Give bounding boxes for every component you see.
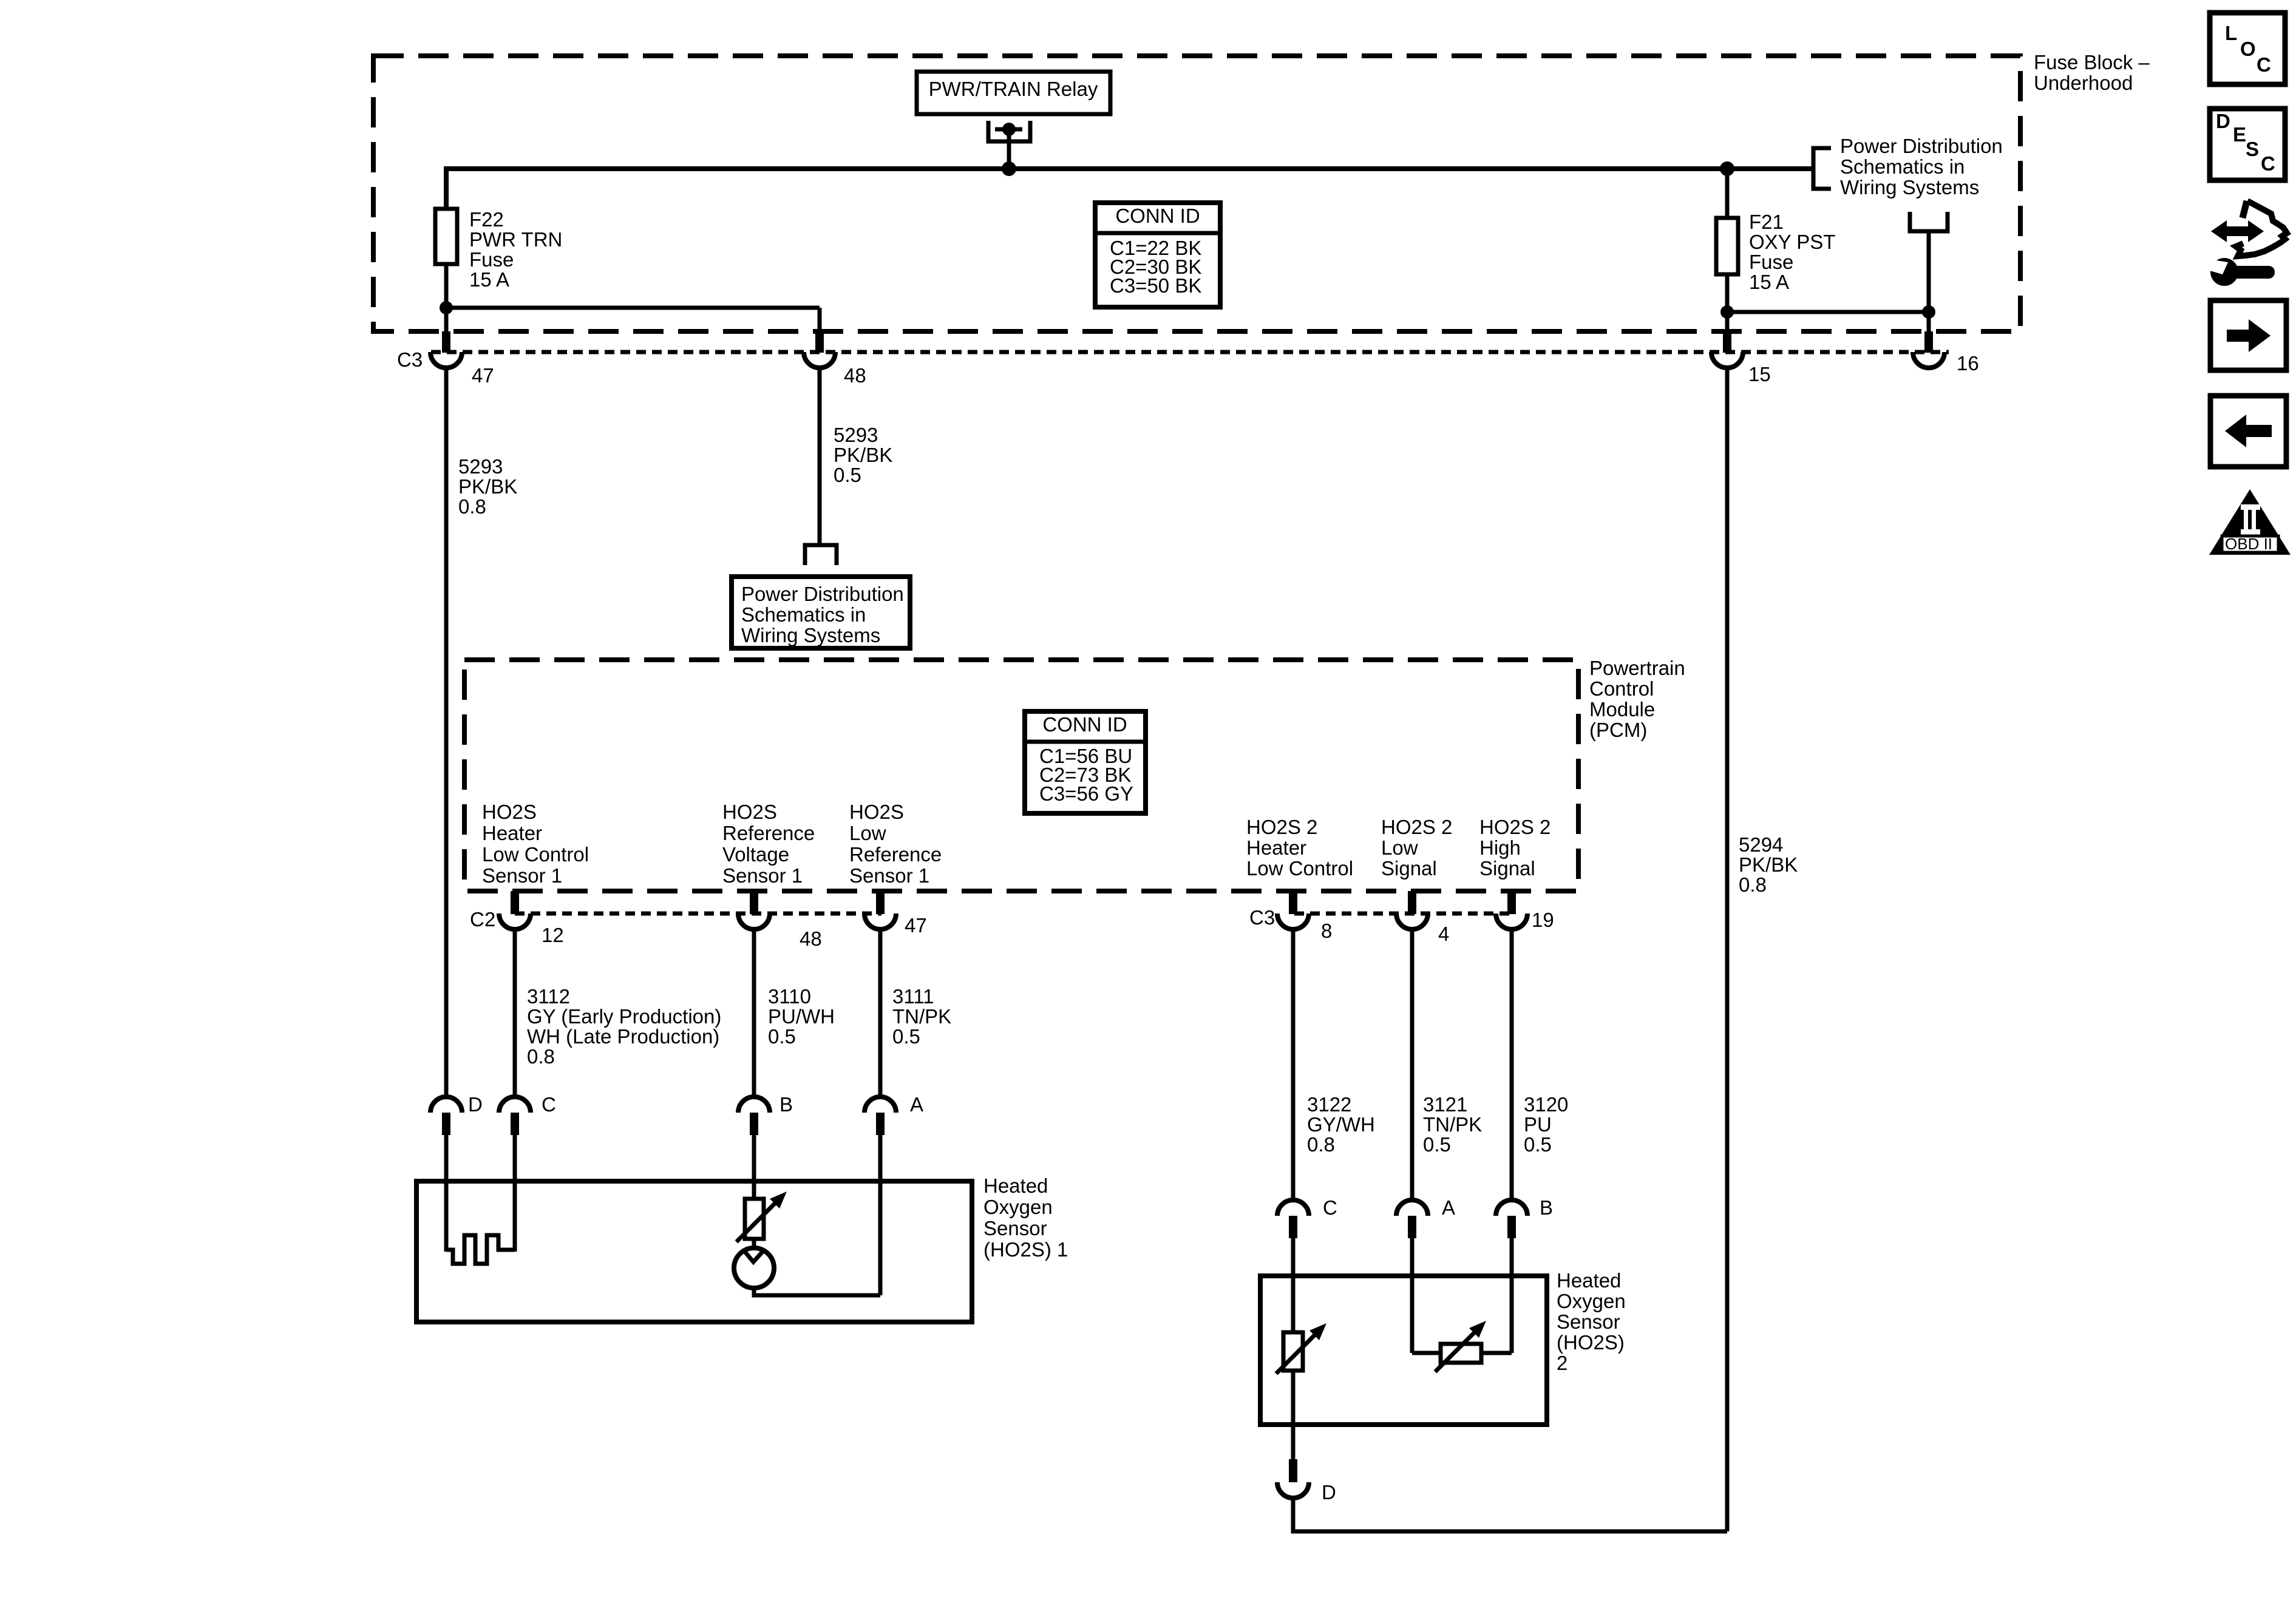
wire 3120 (PCM 19 to HO2S2 B): [1510, 929, 1514, 1201]
svg-text:0.5: 0.5: [892, 1025, 920, 1048]
wire: pin C into HO2S1: [513, 1135, 517, 1252]
svg-text:TN/PK: TN/PK: [1423, 1113, 1482, 1136]
wire: resistor to sensor circle: [752, 1239, 756, 1249]
svg-text:47: 47: [905, 914, 927, 937]
svg-text:HO2S 2: HO2S 2: [1246, 816, 1317, 838]
svg-text:B: B: [779, 1093, 793, 1116]
svg-text:3111: 3111: [892, 985, 934, 1008]
svg-text:Sensor 1: Sensor 1: [482, 864, 562, 887]
svg-text:15 A: 15 A: [1749, 271, 1789, 293]
svg-text:HO2S 2: HO2S 2: [1381, 816, 1452, 838]
wire 3111 (PCM 47 to HO2S1 A): [878, 929, 883, 1098]
wire: pin C into HO2S2: [1291, 1238, 1296, 1334]
icon: OBD II triangle: [2209, 489, 2291, 555]
svg-text:Low: Low: [849, 822, 886, 844]
svg-text:C3=56 GY: C3=56 GY: [1039, 782, 1133, 805]
svg-text:OXY PST: OXY PST: [1749, 231, 1835, 253]
svg-text:L: L: [2225, 22, 2237, 44]
fuse F22: [435, 209, 457, 264]
CONN ID table (PCM): [1025, 711, 1146, 813]
svg-text:Fuse: Fuse: [469, 248, 514, 271]
svg-text:19: 19: [1532, 909, 1554, 931]
svg-text:Fuse Block –: Fuse Block –: [2034, 51, 2150, 73]
svg-text:Power Distribution: Power Distribution: [1840, 135, 2003, 157]
connector line C3 (fuse block): [431, 350, 1949, 354]
pin 4 (PCM C3): [1408, 891, 1416, 914]
svg-text:PWR TRN: PWR TRN: [469, 228, 562, 251]
svg-text:Power Distribution: Power Distribution: [741, 583, 904, 605]
pin D (HO2S1): [430, 1097, 462, 1113]
CONN ID table (fuse block): [1095, 203, 1220, 307]
box: heated oxygen sensor HO2S 2: [1260, 1276, 1547, 1425]
wire 5293 PK/BK 0.5 (pin 48 to power distribution ref): [818, 367, 822, 545]
variable resistor (HO2S2 sensing element, horizontal): [1412, 1351, 1441, 1355]
svg-text:D: D: [1322, 1481, 1336, 1503]
wire: branch to pin 48: [446, 306, 820, 310]
svg-text:Sensor: Sensor: [1557, 1310, 1620, 1333]
svg-text:5293: 5293: [834, 424, 878, 446]
pin 15 (fuse block C3): [1723, 331, 1731, 353]
pin A (HO2S2): [1396, 1200, 1428, 1216]
svg-text:E: E: [2233, 123, 2246, 146]
svg-text:0.5: 0.5: [1423, 1133, 1451, 1156]
box: Power Distribution Schematics in Wiring Systems: [732, 577, 910, 648]
svg-text:0.8: 0.8: [1307, 1133, 1335, 1156]
svg-text:Fuse: Fuse: [1749, 251, 1793, 273]
svg-text:Oxygen: Oxygen: [1557, 1290, 1626, 1312]
pin 47 (PCM C2): [876, 891, 885, 914]
svg-text:O: O: [2240, 38, 2256, 60]
fuse block - underhood (dashed box): [373, 56, 2020, 331]
svg-text:Heater: Heater: [482, 822, 542, 844]
svg-text:0.5: 0.5: [768, 1025, 796, 1048]
pin 48 (PCM C2): [750, 891, 758, 914]
svg-text:WH (Late Production): WH (Late Production): [527, 1025, 719, 1048]
svg-text:Sensor: Sensor: [983, 1217, 1047, 1239]
svg-text:High: High: [1479, 836, 1521, 859]
svg-text:C3: C3: [397, 348, 423, 371]
wire: relay stem to bus: [1007, 129, 1011, 169]
pin A (HO2S1): [864, 1097, 896, 1113]
fuse F21: [1725, 169, 1730, 218]
relay pin (bar with dot): [995, 127, 1022, 132]
svg-text:HO2S 2: HO2S 2: [1479, 816, 1550, 838]
svg-text:Sensor 1: Sensor 1: [722, 864, 803, 887]
svg-text:F21: F21: [1749, 211, 1784, 233]
svg-text:Schematics in: Schematics in: [1840, 155, 1965, 178]
svg-text:Sensor 1: Sensor 1: [849, 864, 929, 887]
svg-text:Voltage: Voltage: [722, 843, 789, 866]
wire: F21 to connector 15: [1725, 274, 1730, 334]
wire 5293 PK/BK 0.8 (pin 47 to HO2S1 pin D): [444, 367, 449, 1098]
svg-text:PU: PU: [1524, 1113, 1552, 1136]
svg-text:CONN ID: CONN ID: [1115, 205, 1200, 227]
svg-text:PK/BK: PK/BK: [1739, 853, 1798, 876]
pin C (HO2S2): [1277, 1200, 1309, 1216]
svg-text:GY/WH: GY/WH: [1307, 1113, 1375, 1136]
svg-text:Underhood: Underhood: [2034, 72, 2133, 94]
svg-text:Low: Low: [1381, 836, 1418, 859]
svg-text:GY (Early Production): GY (Early Production): [527, 1005, 721, 1028]
pin B (HO2S2): [1496, 1200, 1527, 1216]
svg-text:C: C: [2261, 152, 2275, 175]
pin 48 (fuse block C3): [815, 331, 824, 353]
svg-text:F22: F22: [469, 208, 504, 231]
pin 19 (PCM C3): [1507, 891, 1516, 914]
bracket under Power Distribution reference: [1910, 212, 1948, 231]
wire: F22 to connector 47: [444, 264, 449, 334]
svg-text:5293: 5293: [458, 455, 503, 478]
svg-text:0.8: 0.8: [1739, 873, 1767, 896]
wire 3121 (PCM 4 to HO2S2 A): [1410, 929, 1415, 1201]
icon: LOC box: [2210, 13, 2285, 84]
svg-text:OBD II: OBD II: [2225, 535, 2272, 553]
svg-text:3121: 3121: [1423, 1093, 1467, 1116]
svg-text:48: 48: [800, 927, 822, 950]
svg-text:PK/BK: PK/BK: [834, 444, 892, 466]
icon: connector check (double arrow, connector outline, wrench): [2210, 201, 2287, 286]
icon: forward arrow box: [2210, 300, 2286, 370]
svg-text:3122: 3122: [1307, 1093, 1351, 1116]
wire: pin A into HO2S1: [878, 1135, 883, 1295]
off-page reference bracket (right): [1813, 148, 1831, 189]
svg-text:0.8: 0.8: [527, 1045, 555, 1068]
svg-text:Signal: Signal: [1479, 857, 1535, 880]
pin 8 (PCM C3): [1289, 891, 1297, 914]
junction: relay stem on bus: [1002, 161, 1016, 176]
wire 5294 PK/BK 0.8 (pin 15 down to HO2S2 pin D): [1725, 367, 1730, 1531]
wire: pin D into HO2S1: [444, 1135, 449, 1252]
svg-text:C2: C2: [470, 908, 495, 931]
svg-text:Reference: Reference: [849, 843, 942, 866]
svg-text:Wiring Systems: Wiring Systems: [1840, 176, 1979, 198]
svg-text:Oxygen: Oxygen: [983, 1196, 1053, 1218]
bracket to Power Distribution box: [805, 545, 837, 565]
svg-text:4: 4: [1438, 923, 1449, 945]
relay K: PWR/TRAIN Relay label box: [917, 72, 1110, 114]
wire 3122 (PCM 8 to HO2S2 C): [1291, 929, 1296, 1201]
wire 3112 (PCM 12 to HO2S1 C): [513, 929, 517, 1098]
wire: branch to pin 16: [1727, 310, 1929, 314]
pin D (HO2S2): [1289, 1459, 1297, 1482]
svg-text:Schematics in: Schematics in: [741, 603, 866, 626]
svg-text:12: 12: [542, 924, 564, 946]
svg-text:PWR/TRAIN Relay: PWR/TRAIN Relay: [929, 78, 1098, 100]
svg-text:3110: 3110: [768, 985, 811, 1008]
svg-text:3112: 3112: [527, 985, 570, 1008]
svg-text:C: C: [2257, 53, 2271, 76]
svg-text:PK/BK: PK/BK: [458, 475, 517, 498]
pin B (HO2S1): [738, 1097, 770, 1113]
svg-text:Low Control: Low Control: [1246, 857, 1353, 880]
variable resistor (HO2S2 heater): [1283, 1332, 1303, 1371]
wire: resistor to box bottom and pin D: [1291, 1371, 1296, 1459]
svg-text:Module: Module: [1589, 698, 1655, 720]
svg-text:Heated: Heated: [983, 1175, 1048, 1197]
svg-text:0.5: 0.5: [834, 464, 861, 486]
svg-text:HO2S: HO2S: [849, 801, 904, 823]
junction: F21 branch on bus: [1720, 161, 1734, 176]
svg-text:PU/WH: PU/WH: [768, 1005, 835, 1028]
svg-text:3120: 3120: [1524, 1093, 1568, 1116]
pin C (HO2S1): [499, 1097, 531, 1113]
svg-text:15 A: 15 A: [469, 268, 509, 291]
pin 16 (fuse block C3): [1924, 331, 1933, 353]
svg-text:C3=50 BK: C3=50 BK: [1110, 274, 1201, 297]
svg-text:(HO2S) 1: (HO2S) 1: [983, 1238, 1068, 1261]
wire: bracket to pin 16: [1927, 231, 1931, 334]
svg-text:HO2S: HO2S: [482, 801, 537, 823]
wire 3110 (PCM 48 to HO2S1 B): [752, 929, 756, 1098]
svg-text:Wiring Systems: Wiring Systems: [741, 624, 880, 646]
svg-text:C: C: [542, 1093, 556, 1116]
svg-text:(HO2S): (HO2S): [1557, 1331, 1625, 1354]
svg-text:C3: C3: [1249, 906, 1275, 929]
pin 12 (PCM C2): [511, 891, 519, 914]
sensor element circle (HO2S1): [734, 1248, 774, 1288]
svg-text:48: 48: [844, 364, 866, 387]
svg-text:Heated: Heated: [1557, 1269, 1621, 1292]
junction: F22 branch node: [440, 301, 453, 314]
svg-text:S: S: [2246, 138, 2259, 160]
svg-text:Signal: Signal: [1381, 857, 1437, 880]
icon: back arrow box: [2210, 396, 2286, 467]
box: heated oxygen sensor HO2S 1: [416, 1181, 972, 1322]
connector line C2 (PCM): [515, 912, 881, 916]
connector line C3 (PCM): [1294, 912, 1513, 916]
powertrain control module PCM (dashed box): [464, 660, 1578, 891]
wire: pin B into HO2S2: [1510, 1238, 1514, 1353]
svg-text:(PCM): (PCM): [1589, 719, 1647, 741]
wire: pin B into HO2S1: [752, 1135, 756, 1201]
icon: DESC box: [2210, 109, 2285, 180]
junction: pin16 branch node: [1720, 305, 1734, 319]
svg-text:HO2S: HO2S: [722, 801, 777, 823]
variable resistor (HO2S1 sensing element): [745, 1199, 764, 1239]
svg-text:Reference: Reference: [722, 822, 815, 844]
wire: pin A into HO2S2: [1410, 1238, 1415, 1353]
wire: HO2S2 pin D to 5294: [1293, 1497, 1727, 1531]
svg-text:Heater: Heater: [1246, 836, 1306, 859]
svg-text:Powertrain: Powertrain: [1589, 657, 1685, 679]
svg-text:Low Control: Low Control: [482, 843, 589, 866]
heater element (HO2S1): [446, 1235, 515, 1264]
svg-text:CONN ID: CONN ID: [1042, 713, 1127, 736]
wire: main feed bus from F22 to off-page bracket: [446, 169, 1813, 209]
svg-text:A: A: [910, 1093, 923, 1116]
svg-text:C: C: [1323, 1196, 1337, 1219]
svg-text:TN/PK: TN/PK: [892, 1005, 951, 1028]
wire: circle to pin A leg: [754, 1287, 880, 1295]
svg-text:8: 8: [1321, 920, 1332, 942]
svg-text:5294: 5294: [1739, 833, 1783, 856]
svg-text:0.5: 0.5: [1524, 1133, 1552, 1156]
pin 47 (fuse block C3): [442, 331, 450, 353]
svg-text:15: 15: [1748, 363, 1771, 385]
svg-text:16: 16: [1957, 352, 1979, 375]
svg-text:A: A: [1442, 1196, 1455, 1219]
svg-text:D: D: [468, 1093, 483, 1116]
svg-text:Control: Control: [1589, 677, 1654, 700]
svg-text:2: 2: [1557, 1352, 1567, 1374]
relay socket cavity bracket: [988, 121, 1030, 141]
svg-text:B: B: [1540, 1196, 1553, 1219]
svg-text:47: 47: [472, 364, 494, 387]
svg-text:0.8: 0.8: [458, 495, 486, 518]
svg-text:D: D: [2216, 110, 2230, 132]
